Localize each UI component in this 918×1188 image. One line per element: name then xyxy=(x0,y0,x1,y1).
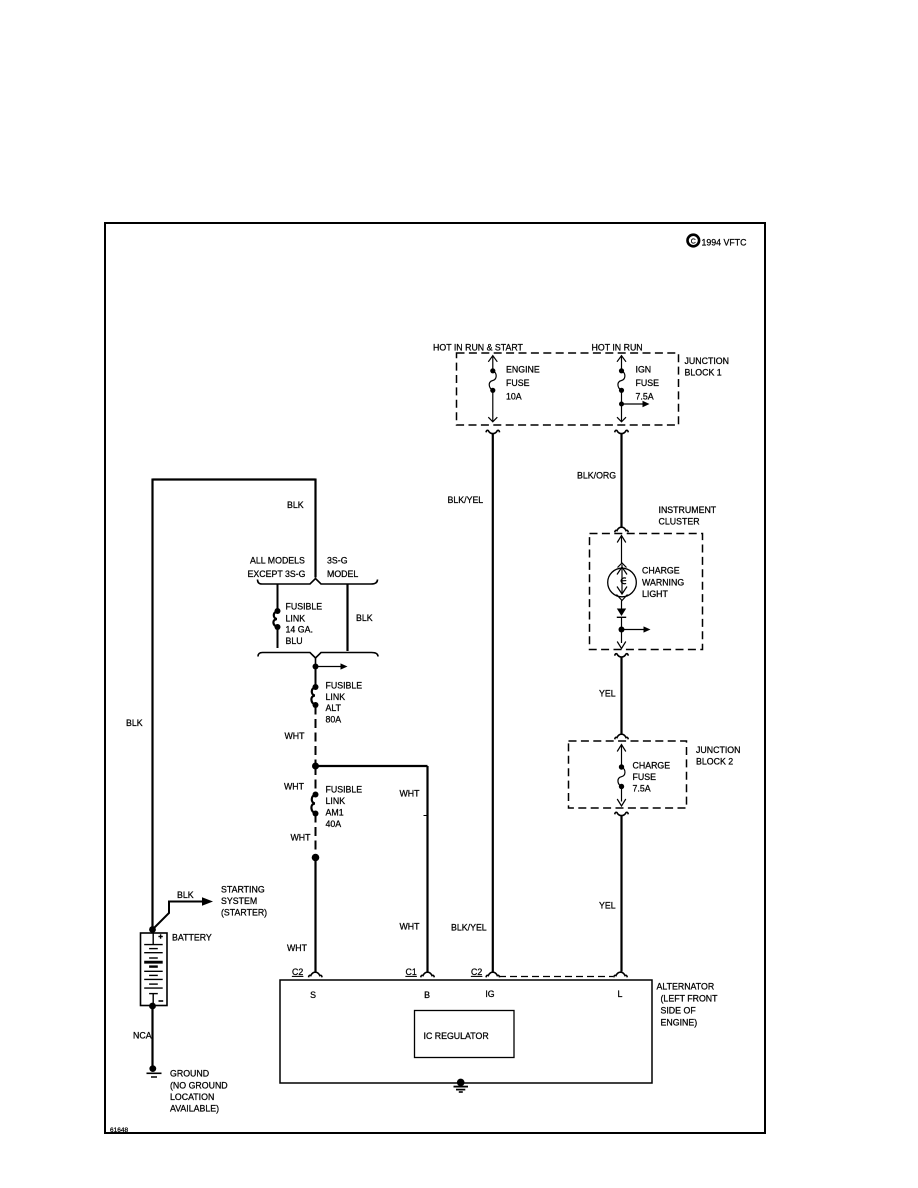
svg-text:BLK/YEL: BLK/YEL xyxy=(448,495,484,505)
svg-text:FUSE: FUSE xyxy=(636,378,660,388)
svg-text:L: L xyxy=(618,989,623,999)
svg-text:SIDE OF: SIDE OF xyxy=(661,1006,697,1016)
svg-text:C1: C1 xyxy=(406,967,417,977)
svg-text:BLOCK 2: BLOCK 2 xyxy=(696,757,733,767)
svg-text:AM1: AM1 xyxy=(326,808,344,818)
svg-text:LINK: LINK xyxy=(326,692,346,702)
svg-text:BLK: BLK xyxy=(287,500,304,510)
svg-text:JUNCTION: JUNCTION xyxy=(685,356,729,366)
svg-text:YEL: YEL xyxy=(599,901,616,911)
svg-text:WHT: WHT xyxy=(287,943,308,953)
svg-text:WHT: WHT xyxy=(284,782,305,792)
svg-text:FUSIBLE: FUSIBLE xyxy=(326,681,363,691)
svg-text:10A: 10A xyxy=(506,392,522,402)
svg-text:BLK/YEL: BLK/YEL xyxy=(451,923,487,933)
svg-text:(LEFT FRONT: (LEFT FRONT xyxy=(661,994,719,1004)
svg-text:ALTERNATOR: ALTERNATOR xyxy=(657,982,715,992)
svg-text:CLUSTER: CLUSTER xyxy=(659,517,700,527)
svg-text:LIGHT: LIGHT xyxy=(642,589,669,599)
svg-text:LINK: LINK xyxy=(326,796,346,806)
svg-text:IGN: IGN xyxy=(636,365,652,375)
svg-text:EXCEPT 3S-G: EXCEPT 3S-G xyxy=(248,569,306,579)
svg-text:GROUND: GROUND xyxy=(170,1069,209,1079)
svg-text:3S-G: 3S-G xyxy=(327,556,348,566)
svg-text:ENGINE): ENGINE) xyxy=(661,1018,698,1028)
svg-text:CHARGE: CHARGE xyxy=(633,761,671,771)
svg-text:BLOCK 1: BLOCK 1 xyxy=(685,368,722,378)
svg-text:BATTERY: BATTERY xyxy=(172,933,212,943)
svg-text:IG: IG xyxy=(485,989,494,999)
svg-text:(STARTER): (STARTER) xyxy=(221,908,267,918)
svg-text:BLK: BLK xyxy=(356,613,373,623)
svg-text:7.5A: 7.5A xyxy=(636,392,654,402)
svg-text:MODEL: MODEL xyxy=(327,569,358,579)
svg-text:C2: C2 xyxy=(471,967,482,977)
svg-text:ENGINE: ENGINE xyxy=(506,365,540,375)
svg-text:LINK: LINK xyxy=(286,614,306,624)
svg-text:BLU: BLU xyxy=(286,636,303,646)
svg-text:NCA: NCA xyxy=(133,1031,152,1041)
svg-text:1994 VFTC: 1994 VFTC xyxy=(702,238,748,248)
svg-text:ALL MODELS: ALL MODELS xyxy=(250,556,305,566)
svg-text:FUSE: FUSE xyxy=(506,378,530,388)
svg-text:80A: 80A xyxy=(326,715,342,725)
svg-text:INSTRUMENT: INSTRUMENT xyxy=(659,505,717,515)
svg-text:7.5A: 7.5A xyxy=(633,784,651,794)
svg-text:YEL: YEL xyxy=(599,689,616,699)
svg-text:C: C xyxy=(691,238,696,245)
svg-text:SYSTEM: SYSTEM xyxy=(221,896,257,906)
svg-text:HOT IN RUN: HOT IN RUN xyxy=(592,343,643,353)
svg-text:HOT IN RUN & START: HOT IN RUN & START xyxy=(433,343,524,353)
svg-text:JUNCTION: JUNCTION xyxy=(696,745,740,755)
svg-text:AVAILABLE): AVAILABLE) xyxy=(170,1104,219,1114)
svg-text:FUSE: FUSE xyxy=(633,772,657,782)
svg-text:14 GA.: 14 GA. xyxy=(286,625,313,635)
svg-text:WARNING: WARNING xyxy=(642,578,684,588)
svg-text:(NO GROUND: (NO GROUND xyxy=(170,1081,228,1091)
svg-text:FUSIBLE: FUSIBLE xyxy=(326,785,363,795)
svg-text:B: B xyxy=(424,990,430,1000)
svg-text:61648: 61648 xyxy=(110,1127,128,1134)
svg-text:IC REGULATOR: IC REGULATOR xyxy=(424,1031,489,1041)
svg-text:WHT: WHT xyxy=(285,731,306,741)
svg-text:40A: 40A xyxy=(326,819,342,829)
svg-text:WHT: WHT xyxy=(400,922,421,932)
svg-text:BLK: BLK xyxy=(126,718,143,728)
svg-text:ALT: ALT xyxy=(326,703,342,713)
svg-text:WHT: WHT xyxy=(291,833,312,843)
svg-text:BLK: BLK xyxy=(177,890,194,900)
svg-text:BLK/ORG: BLK/ORG xyxy=(577,471,616,481)
svg-text:LOCATION: LOCATION xyxy=(170,1092,214,1102)
svg-text:FUSIBLE: FUSIBLE xyxy=(286,602,323,612)
svg-text:WHT: WHT xyxy=(400,789,421,799)
svg-text:CHARGE: CHARGE xyxy=(642,566,680,576)
svg-text:S: S xyxy=(310,990,316,1000)
svg-text:STARTING: STARTING xyxy=(221,885,265,895)
svg-text:C2: C2 xyxy=(292,967,303,977)
